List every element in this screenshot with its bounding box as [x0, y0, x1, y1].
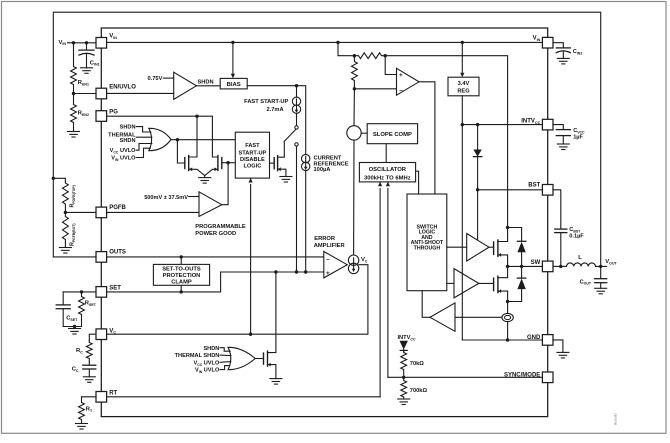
wire SHDN hook 2 — [220, 348, 230, 352]
wire slope comp to oscillator — [385, 144, 387, 163]
ground at GND pin — [557, 352, 569, 358]
svg-text:0.1µF: 0.1µF — [569, 234, 584, 240]
svg-text:–: – — [399, 87, 403, 94]
wire VC node to VC rail — [107, 265, 368, 335]
transistor power top — [494, 228, 508, 267]
wire BST to top driver — [477, 190, 479, 241]
svg-text:PROTECTION: PROTECTION — [163, 273, 201, 279]
pin OUTS (left) — [96, 252, 107, 263]
junction PGFB tap — [64, 211, 67, 214]
block SWITCH LOGIC AND ANTI-SHOOT THROUGH — [407, 194, 447, 291]
pin BST (right) — [542, 185, 553, 196]
svg-text:PROGRAMMABLE: PROGRAMMABLE — [195, 224, 246, 230]
pin EN/UVLO (left) — [96, 88, 107, 99]
ground below CIN2 — [557, 58, 569, 64]
label COUT — [580, 279, 592, 285]
ground below RPGFB(BOT) — [59, 248, 71, 254]
wire VIN input — [68, 42, 97, 44]
label pin RT — [109, 390, 117, 396]
svg-text:BST: BST — [528, 182, 540, 188]
label THERMAL SHDN input 2 — [175, 353, 220, 359]
wire VOUT feedback net (VOUT to OUTS / PG divider) — [53, 12, 600, 266]
block SLOPE COMP — [367, 124, 417, 144]
junction SW / top — [506, 265, 509, 268]
resistor 70k — [401, 351, 407, 378]
wire clamp to OUTS — [180, 257, 182, 265]
IC block outline — [101, 28, 547, 417]
capacitor CSET — [56, 292, 70, 327]
wire SET input — [63, 291, 96, 293]
amplifier current sense feedback — [430, 303, 455, 331]
wire VIN to sense divider — [338, 42, 354, 55]
wire CS amp output to switch logic — [419, 82, 435, 194]
capacitor CIN2 — [556, 48, 570, 59]
driver top gate — [467, 234, 489, 262]
op-amp error amplifier — [324, 252, 347, 278]
transistor VC clamp — [264, 351, 276, 379]
label pin SET — [109, 285, 121, 291]
ground below pull-up pair — [199, 176, 211, 184]
pin INTVCC (right) — [542, 119, 553, 130]
ground below REN2 — [68, 132, 80, 138]
ground below VC clamp — [270, 379, 282, 385]
label pin VIN right — [533, 35, 541, 41]
wire RT input — [82, 396, 97, 398]
svg-text:0.75V: 0.75V — [148, 76, 163, 82]
junction + rail / switch branch — [295, 270, 298, 273]
wire INTVCC to CVCC — [553, 125, 563, 130]
label pin SYNC/MODE — [504, 372, 540, 378]
label pin VIN — [109, 34, 117, 40]
wire VIN to 3.4V REG — [460, 42, 464, 77]
pin RT (left) — [96, 392, 107, 403]
label pin OUTS — [109, 249, 126, 255]
junction VIN/CIN1 — [85, 41, 88, 44]
wire 500mV reference input — [189, 196, 199, 198]
label VIN UVLO input 2 — [195, 368, 220, 374]
svg-text:THERMAL SHDN: THERMAL SHDN — [175, 353, 220, 359]
wire left pull-up drain — [189, 116, 197, 157]
block OSCILLATOR — [359, 163, 415, 182]
resistor REN1 — [71, 43, 77, 94]
svg-text:FAST START-UP: FAST START-UP — [244, 99, 288, 105]
label pin PGFB — [109, 205, 126, 211]
wire SYNC to oscillator — [386, 182, 390, 377]
svg-text:3.4V: 3.4V — [458, 81, 470, 87]
node slope summer — [347, 126, 361, 140]
wire sense to top FET drain — [385, 56, 507, 228]
resistor REN2 — [71, 94, 77, 132]
svg-text:START-UP: START-UP — [239, 150, 267, 156]
label diagram id — [614, 412, 618, 425]
wire current reference to + rail — [305, 171, 307, 272]
resistor RC — [86, 341, 92, 362]
wire OUTS input — [53, 256, 96, 258]
wire VCC UVLO hook 2 — [220, 361, 231, 364]
svg-text:POWER GOOD: POWER GOOD — [195, 231, 236, 237]
wire GND pin to ground — [553, 340, 563, 353]
wire switch logic to top driver — [447, 246, 467, 248]
diode body top — [508, 228, 526, 267]
block BIAS — [220, 78, 247, 89]
svg-text:ERROR: ERROR — [314, 236, 336, 242]
junction sense resistor right — [384, 54, 387, 57]
wire OUTS rail — [107, 256, 324, 258]
diode boost (INTVCC to BST) — [473, 125, 481, 190]
label VCC UVLO input 2 — [193, 360, 219, 366]
wire VIN rail — [107, 41, 543, 43]
junction feedback / PG divider tap — [52, 177, 55, 180]
junction EN/UVLO divider — [72, 92, 75, 95]
inductor L — [567, 263, 596, 266]
block 3.4V REG — [448, 77, 479, 96]
wire SHDN hook — [136, 127, 151, 132]
label SHDN input 2 — [203, 346, 219, 352]
sensor current sense — [502, 302, 513, 341]
junction BST / top driver — [476, 188, 479, 191]
ground below COUT — [595, 288, 607, 294]
ground below RT — [76, 424, 88, 430]
junction SYNC divider — [402, 376, 405, 379]
svg-text:2.7mA: 2.7mA — [267, 107, 284, 113]
junction OR1 output — [176, 138, 179, 141]
svg-text:VIN UVLO: VIN UVLO — [195, 368, 220, 374]
label FAST START-UP — [244, 99, 288, 105]
wire sense to CS amp + — [385, 56, 396, 75]
label SHDN input — [120, 125, 136, 131]
label CBST 0.1uF — [569, 227, 584, 240]
wire right pull-up gate to FSU logic — [222, 162, 236, 164]
current source reference 100uA — [302, 154, 310, 170]
svg-text:100µA: 100µA — [314, 167, 331, 173]
label 700k — [410, 388, 428, 394]
wire disable transistor drain to switch — [278, 141, 285, 157]
wire CS feedback amp to switch logic — [422, 291, 430, 318]
wire switch logic to bottom driver — [447, 282, 454, 284]
label 70k — [410, 361, 424, 367]
junction SET / clamp — [180, 290, 183, 293]
label CURRENT REFERENCE 100uA — [314, 155, 349, 173]
junction PG rail / left pull-up — [195, 115, 198, 118]
svg-text:SET-TO-OUTS: SET-TO-OUTS — [162, 267, 201, 273]
pin PGFB (left) — [96, 207, 107, 218]
ground below 700k — [398, 399, 410, 405]
svg-text:SHDN: SHDN — [198, 80, 214, 86]
pin VC (left) — [96, 329, 107, 340]
svg-text:RT: RT — [109, 390, 117, 396]
label pin BST — [528, 182, 540, 188]
transistor pull-up right (PG) — [205, 156, 222, 176]
transistor power bottom — [494, 266, 508, 301]
resistor RPGFB(TOP) — [63, 182, 69, 212]
resistor RT — [79, 397, 85, 424]
wire SET rail — [107, 272, 324, 292]
wire inductor to VOUT — [596, 265, 607, 267]
wire VCC UVLO hook — [136, 144, 152, 151]
svg-text:500mV ± 37.5mV: 500mV ± 37.5mV — [144, 195, 188, 201]
pin VIN (left) — [96, 38, 107, 49]
junction VIN rail / 3.4V REG feed — [461, 41, 464, 44]
wire BST to CBST — [553, 190, 561, 229]
capacitor CC — [83, 362, 96, 377]
svg-text:700kΩ: 700kΩ — [410, 388, 428, 394]
svg-text:AMPLIFIER: AMPLIFIER — [314, 243, 346, 249]
svg-text:DISABLE: DISABLE — [240, 157, 265, 163]
label VCC UVLO input — [110, 148, 136, 154]
label RT — [86, 407, 93, 413]
wire SYNC/MODE rail — [388, 376, 543, 378]
wire PGFB rail — [107, 211, 199, 213]
label RC — [76, 348, 83, 354]
junction + rail / current reference — [304, 270, 307, 273]
wire THERMAL SHDN hook 2 — [220, 354, 231, 357]
wire slope resistor to summer — [353, 89, 355, 126]
switch lever — [284, 129, 296, 141]
svg-text:8636 BD: 8636 BD — [614, 412, 618, 425]
wire sensor to CS feedback amp — [455, 316, 502, 318]
wire PG rail — [107, 116, 218, 157]
junction slope resistor / CS amp - — [353, 87, 356, 90]
label CIN2 — [573, 49, 583, 55]
junction SW / body diode — [520, 265, 523, 268]
wire SHDN comparator output — [196, 85, 220, 87]
comparator programmable power good — [199, 192, 222, 217]
junction VIN/REN1 — [72, 41, 75, 44]
label pin PG — [109, 109, 118, 115]
wire EN/UVLO to comparator — [107, 92, 174, 94]
wire top driver to gate — [489, 246, 494, 248]
pin SW (right) — [542, 261, 553, 272]
label VC node — [361, 257, 368, 263]
label VIN UVLO input — [111, 156, 136, 162]
wire RT to oscillator — [378, 182, 382, 397]
label pin GND — [527, 335, 541, 341]
wire clamp to SET — [180, 285, 182, 292]
ground below disable transistor — [280, 177, 292, 183]
pin PG (left) — [96, 111, 107, 122]
current source error amp output (VC) — [348, 255, 358, 274]
driver bottom gate — [454, 269, 479, 298]
wire RSET/CSET bottom — [63, 326, 81, 328]
wire BST rail — [478, 189, 543, 191]
junction SET network ground — [73, 325, 76, 328]
svg-text:–: – — [326, 256, 330, 263]
ground below CC — [83, 377, 95, 383]
junction + rail / VC clamp — [274, 270, 277, 273]
label pin SW — [531, 260, 541, 266]
resistor RSET — [79, 292, 85, 327]
ground below CIN1 — [81, 68, 93, 74]
svg-text:CLAMP: CLAMP — [171, 280, 192, 286]
pin VIN right (right) — [542, 37, 553, 48]
node INTVCC tap (label) — [397, 335, 416, 341]
capacitor CBST — [555, 229, 567, 266]
wire SW to inductor — [553, 265, 567, 267]
junction FSU logic / VC rail — [249, 333, 252, 336]
junction bottom FET source — [506, 300, 509, 303]
svg-text:PG: PG — [109, 109, 118, 115]
label pin EN/UVLO — [109, 85, 136, 91]
svg-text:SW: SW — [531, 260, 541, 266]
svg-text:L: L — [578, 255, 582, 261]
switch fast start-up (top contact) — [295, 126, 298, 129]
wire 0.75V reference input — [163, 77, 173, 79]
wire SW rail — [508, 265, 543, 267]
wire OR2 output to clamp gate — [255, 358, 263, 360]
svg-text:70kΩ: 70kΩ — [410, 361, 424, 367]
label CC — [72, 367, 79, 373]
comparator EN (0.75V reference) — [174, 72, 197, 99]
svg-text:REG: REG — [457, 89, 470, 95]
capacitor COUT — [595, 266, 607, 288]
junction top FET drain / sense — [506, 226, 509, 229]
junction CBST / SW — [559, 265, 562, 268]
transistor pull-up left (PG) — [185, 156, 205, 176]
node VOUT (label) — [605, 259, 617, 265]
gate OR shutdown logic (PG) — [149, 128, 171, 150]
capacitor CVCC — [556, 130, 570, 144]
junction VOUT — [599, 265, 602, 268]
svg-text:BIAS: BIAS — [227, 82, 241, 88]
block SET-TO-OUTS PROTECTION CLAMP — [153, 264, 209, 285]
label ERROR AMPLIFIER — [314, 236, 346, 249]
wire OR1 output — [171, 139, 235, 141]
wire bottom driver to gate — [479, 282, 494, 284]
svg-text:FAST: FAST — [245, 143, 260, 149]
wire RT rail — [107, 396, 381, 398]
wire BIAS to current reference — [297, 86, 306, 155]
svg-text:1µF: 1µF — [573, 135, 583, 141]
junction VIN rail / sense divider — [336, 41, 339, 44]
label PROGRAMMABLE POWER GOOD — [195, 224, 246, 237]
label RPGFB(TOP) — [70, 185, 76, 207]
wire PGFB input — [65, 211, 96, 213]
label 0.75V — [148, 76, 163, 82]
wire FSU logic to VC rail — [249, 178, 253, 334]
junction INTVCC / regulator — [461, 123, 464, 126]
wire VC compensation — [89, 334, 96, 340]
label 2.7mA — [267, 107, 284, 113]
junction BIAS / fast start-up source — [295, 84, 298, 87]
svg-text:LOGIC: LOGIC — [243, 164, 261, 170]
wire summer to VC node — [353, 140, 355, 255]
label CSET — [66, 316, 78, 322]
diode body bottom — [508, 266, 526, 301]
wire CS amp - input — [354, 88, 396, 90]
svg-text:SET: SET — [109, 285, 121, 291]
label REN1 — [78, 80, 89, 86]
label CVCC 1uF — [573, 128, 585, 141]
pin SYNC/MODE (right) — [542, 372, 553, 383]
label pin VC — [109, 328, 116, 334]
svg-text:OUTS: OUTS — [109, 249, 126, 255]
wire 3.4V REG to INTVCC rail and GND rail — [461, 96, 463, 340]
svg-text:SLOPE COMP: SLOPE COMP — [373, 132, 412, 138]
wire VIN UVLO hook 2 — [220, 366, 230, 370]
svg-text:300kHz TO 6MHz: 300kHz TO 6MHz — [364, 175, 411, 181]
label THERMAL SHDN input — [108, 132, 136, 144]
wire VC clamp drain — [268, 272, 276, 353]
resistor 700k — [401, 377, 407, 399]
current source fast start-up 2.7mA — [292, 86, 300, 114]
junction SET/RSET — [80, 290, 83, 293]
wire EN/UVLO input — [74, 93, 97, 95]
label RPGFB(BOT) — [70, 224, 76, 246]
junction sense divider top — [353, 54, 356, 57]
resistor slope (vertical) — [352, 56, 358, 89]
wire GND rail — [462, 339, 542, 341]
svg-text:OSCILLATOR: OSCILLATOR — [369, 167, 407, 173]
junction INTVCC / boost diode — [476, 123, 479, 126]
wire INTVCC rail — [462, 124, 542, 126]
power INTVCC tap arrow — [400, 341, 408, 352]
pin GND (right) — [542, 335, 553, 346]
junction GND / sensor — [506, 338, 509, 341]
svg-text:EN/UVLO: EN/UVLO — [109, 85, 136, 91]
wire source to switch — [296, 113, 298, 125]
label 500mV +/- 37.5mV — [144, 195, 188, 201]
label L — [578, 255, 582, 261]
wire PG divider top — [53, 178, 65, 182]
node VIN (label) — [59, 40, 67, 46]
resistor sense (horizontal) — [354, 53, 385, 59]
wire OR1 to pull-up gate — [177, 140, 184, 163]
svg-text:+: + — [326, 270, 330, 277]
ground below CVCC — [557, 144, 569, 150]
label SHDN net — [198, 80, 214, 86]
wire PG comparator output — [222, 163, 228, 205]
svg-text:PGFB: PGFB — [109, 205, 126, 211]
wire THERMAL SHDN hook — [136, 136, 152, 138]
svg-text:SHDN: SHDN — [203, 346, 219, 352]
wire summer to slope comp — [361, 132, 367, 134]
block FAST START-UP DISABLE LOGIC — [235, 132, 269, 178]
junction VIN rail / BIAS feed — [231, 41, 234, 44]
switch fast start-up (bottom contact) — [295, 143, 298, 146]
label REN2 — [78, 111, 89, 117]
resistor RPGFB(BOT) — [63, 212, 69, 247]
transistor fast start-up disable — [274, 156, 286, 177]
wire BIAS output — [247, 85, 296, 87]
wire switch to error amp + rail — [296, 146, 298, 272]
op-amp current sense — [397, 68, 420, 95]
label RSET — [85, 301, 97, 307]
svg-text:+: + — [399, 72, 403, 79]
svg-text:SHDN: SHDN — [120, 138, 136, 144]
capacitor CIN1 — [79, 43, 94, 68]
label pin INTVCC — [521, 118, 540, 124]
junction PG comparator / FSU logic — [226, 161, 229, 164]
label CIN1 — [90, 60, 100, 66]
svg-text:THROUGH: THROUGH — [414, 246, 441, 252]
wire VIN to BIAS — [231, 42, 235, 78]
junction OUTS / clamp — [180, 255, 183, 258]
wire oscillator to switch logic — [416, 171, 419, 194]
ground below SET network — [69, 327, 81, 335]
wire FSU logic to disable transistor gate — [270, 162, 275, 164]
wire VIN UVLO hook — [136, 148, 150, 157]
wire VIN right to CIN2 — [553, 43, 563, 48]
gate OR shutdown logic (VC clamp) — [228, 347, 255, 369]
svg-text:SHDN: SHDN — [120, 125, 136, 131]
pin SET (left) — [96, 287, 107, 298]
